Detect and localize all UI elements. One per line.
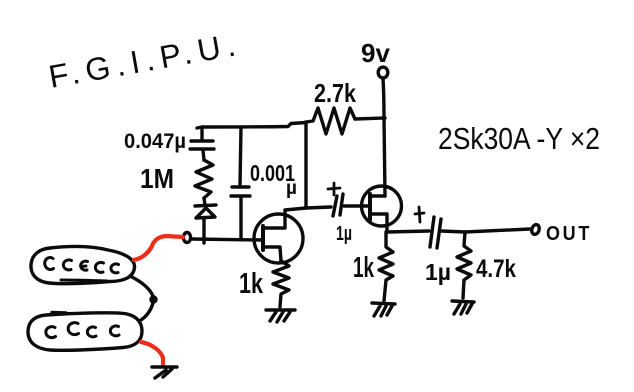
OUT terminal	[531, 224, 541, 236]
transistor Q2 JFET circle	[362, 186, 402, 226]
capacitor C1 1u wire right	[344, 204, 370, 207]
wire C2 to out node	[441, 231, 465, 232]
resistor R 1k (Q2 source)	[379, 232, 393, 301]
ground (4.7k)	[452, 301, 474, 314]
capacitor C 0.001u bottom lead	[239, 197, 242, 239]
wire input node	[191, 239, 263, 240]
svg-text:9v: 9v	[361, 38, 390, 68]
junction dot	[150, 296, 156, 302]
svg-text:1k: 1k	[239, 268, 264, 300]
capacitor C1 1u coupling wire left	[306, 207, 331, 208]
pickup PU1 body	[31, 246, 135, 283]
resistor R 4.7k	[457, 232, 471, 298]
input terminal	[183, 233, 190, 243]
svg-text:1k: 1k	[353, 252, 375, 284]
transistor Q2 gate bar	[368, 194, 372, 220]
svg-text:F.G.I.P.U.: F.G.I.P.U.	[46, 26, 242, 95]
9V terminal	[378, 67, 388, 78]
plus sign C2	[415, 207, 424, 222]
black wire PU1 to junction	[130, 276, 153, 296]
svg-text:OUT: OUT	[546, 223, 592, 245]
svg-text:µ: µ	[286, 178, 297, 199]
wire out	[465, 229, 530, 232]
pickup PU1 seam	[61, 280, 107, 281]
svg-text:1µ: 1µ	[336, 223, 352, 245]
svg-text:2.7k: 2.7k	[314, 78, 356, 108]
svg-text:4.7k: 4.7k	[476, 255, 516, 283]
pickup PU2 body	[28, 313, 142, 351]
resistor R 1M	[195, 160, 213, 198]
svg-text:1M: 1M	[140, 163, 174, 194]
capacitor C 0.001u plates	[231, 187, 250, 196]
wire riser drain node to rail	[304, 122, 307, 208]
resistor R 1k (Q1 source)	[273, 261, 289, 307]
svg-text:1µ: 1µ	[425, 259, 451, 285]
diode D1	[204, 198, 205, 205]
svg-text:0.047µ: 0.047µ	[124, 130, 186, 153]
red wire PU1 to input	[134, 236, 183, 260]
red wire PU2 to ground	[141, 342, 163, 365]
transistor Q1 gate bar	[261, 226, 265, 250]
capacitor C 0.047u plates	[190, 141, 214, 149]
wire top rail	[197, 123, 306, 129]
ground (Q2 source)	[372, 303, 395, 316]
pickup PU2 seam	[52, 311, 66, 315]
capacitor C 0.047u bottom lead	[203, 150, 204, 160]
capacitor C2 1u plates	[430, 217, 441, 248]
transistor Q1 drain lead	[264, 208, 306, 228]
capacitor C 0.001u top lead	[240, 127, 241, 186]
wire Q2 source node	[387, 231, 429, 232]
black wire junction to PU2	[141, 303, 153, 320]
capacitor C 0.047u top lead	[200, 127, 203, 140]
ground (Q1 source)	[266, 310, 295, 322]
capacitor C1 1u plates	[333, 194, 343, 216]
transistor Q2 drain lead	[370, 194, 385, 197]
ground (pickup)	[152, 367, 177, 378]
pickup PU2 pole pieces	[46, 327, 56, 338]
transistor Q1 source lead	[264, 247, 281, 261]
transistor Q2 source lead	[370, 214, 387, 232]
node supply junction wire to 2.7k	[355, 118, 385, 119]
pickup PU1 pole pieces	[45, 258, 54, 270]
svg-text:2Sk30A -Y ×2: 2Sk30A -Y ×2	[438, 121, 600, 156]
transistor Q1 JFET circle	[254, 214, 303, 263]
plus sign C1	[328, 183, 340, 195]
resistor R 2.7k	[306, 108, 355, 134]
wire 9V supply line	[383, 78, 385, 196]
